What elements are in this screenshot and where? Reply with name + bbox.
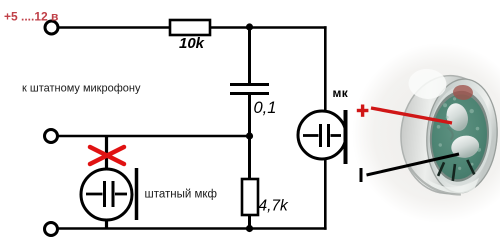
M1 capacitor plate right <box>112 181 115 207</box>
wire J1 down to C1 <box>248 27 251 84</box>
black pointer line to ground pad <box>367 154 460 175</box>
resistor R2 4,7k <box>242 179 258 215</box>
svg-text:+5 ....12 в: +5 ....12 в <box>4 10 58 24</box>
terminal T1 (+supply) <box>45 21 58 34</box>
node J2 <box>246 132 253 139</box>
wire stub from middle wire down to M1 <box>105 136 108 170</box>
wire top from R1 to corner <box>210 26 327 29</box>
terminal T3 <box>45 223 58 236</box>
wire J2 down to R2 <box>248 136 251 179</box>
svg-text:к штатному микрофону: к штатному микрофону <box>22 83 141 95</box>
wire stub from M1 down to bottom wire <box>105 220 108 229</box>
ground tick I <box>360 168 363 182</box>
svg-text:0,1: 0,1 <box>254 99 277 117</box>
microphone M2 circle <box>298 111 346 159</box>
capacitor C1 plates <box>230 83 269 86</box>
terminal T2 <box>45 130 58 143</box>
wire vertical right branch down to M2 <box>324 26 327 111</box>
M2 capacitor lead right <box>331 134 342 137</box>
M2 capacitor plate left <box>319 124 322 147</box>
red pointer line to + pad <box>371 108 452 123</box>
red X cross-out mark <box>90 147 124 164</box>
wire bottom from T3 to corner <box>58 227 327 230</box>
M1 electrode bar <box>135 168 139 220</box>
resistor R1 10k <box>170 20 210 35</box>
svg-text:10k: 10k <box>179 35 205 52</box>
wire middle from T2 to J2 <box>58 135 251 138</box>
svg-text:4,7k: 4,7k <box>259 198 290 215</box>
microphone M1 circle (old mic, crossed out) <box>81 169 132 220</box>
wire top from T1 to R1 <box>59 26 171 29</box>
M1 capacitor lead left <box>86 193 103 196</box>
M2 electrode bar <box>344 110 348 164</box>
photo of electret microphone capsule <box>352 43 500 223</box>
label + (positive pad pointer) <box>357 105 369 117</box>
M1 capacitor plate left <box>103 181 106 207</box>
node J3 <box>246 225 253 232</box>
svg-text:штатный мкф: штатный мкф <box>145 189 217 201</box>
node J1 <box>246 23 253 30</box>
svg-text:мк: мк <box>333 86 349 100</box>
wire R2 down to J3 <box>248 215 251 229</box>
wire C1 down to J2 <box>248 94 251 137</box>
M2 capacitor lead left <box>303 134 319 137</box>
M1 capacitor lead right <box>115 193 127 196</box>
M2 capacitor plate right <box>327 124 330 147</box>
wire vertical from bottom wire up to M2 <box>324 158 327 230</box>
